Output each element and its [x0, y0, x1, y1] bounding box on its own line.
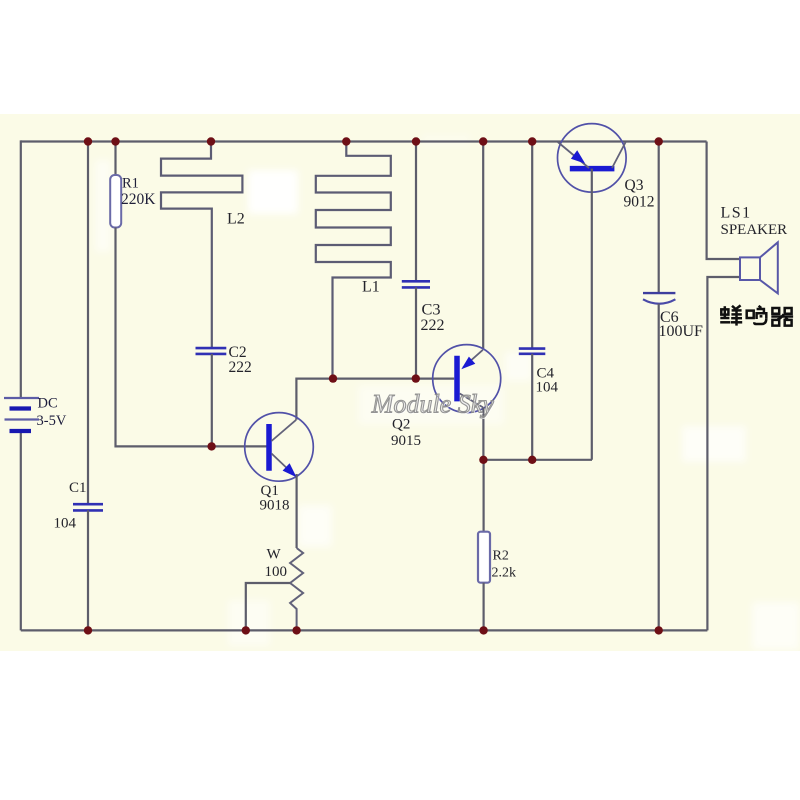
capacitor C1: [73, 504, 103, 510]
capacitor C2: [196, 348, 227, 354]
svg-text:L2: L2: [227, 211, 245, 228]
wire C4 branch upper: [531, 142, 533, 349]
junction bottom rail at R2: [479, 626, 487, 634]
svg-text:C1: C1: [69, 480, 87, 496]
junction top rail at L2: [207, 137, 215, 145]
transistor Q1: [245, 413, 314, 482]
wire C1 branch vertical: [87, 142, 89, 505]
inductor L1 comb: [316, 141, 391, 379]
speaker LS1 symbol: [740, 242, 778, 293]
junction bottom rail at W wiper: [242, 626, 250, 634]
wire R2 lower: [483, 583, 485, 631]
svg-text:C3: C3: [422, 300, 441, 319]
junction top rail at C6: [655, 137, 663, 145]
svg-text:R2: R2: [493, 549, 509, 564]
wire right vertical from top rail to speaker upper arm: [707, 142, 740, 260]
svg-text:DC: DC: [38, 396, 58, 412]
svg-text:9018: 9018: [260, 498, 290, 514]
wire Q1 collector up and right to Q2 base: [296, 379, 454, 420]
junction top rail at C3: [412, 137, 420, 145]
transistor Q2: [433, 345, 501, 413]
wire Q2 collector down: [482, 407, 484, 459]
wire R2 upper: [483, 460, 485, 532]
junction L1 bottom on base line: [329, 374, 337, 382]
svg-text:Q3: Q3: [625, 177, 644, 194]
label buzzer Chinese 蜂鸣器: [720, 305, 793, 325]
wire W wiper arm: [246, 583, 290, 630]
wire C2 lower: [211, 354, 213, 447]
wire speaker lower arm down to bottom rail: [707, 277, 740, 630]
junction top rail at C1: [84, 137, 92, 145]
wire C4 lower: [531, 354, 533, 460]
junction bottom rail at C1: [84, 626, 92, 634]
transistor Q3: [558, 124, 627, 193]
svg-text:R1: R1: [122, 176, 139, 192]
junction top rail at R1: [111, 137, 119, 145]
svg-text:222: 222: [421, 317, 445, 334]
junction C4 bottom: [528, 456, 536, 464]
svg-text:LS1: LS1: [721, 205, 752, 222]
schematic background panel: [0, 114, 800, 651]
capacitor C6 polarized: [643, 293, 675, 304]
wire R1 branch upper: [114, 142, 116, 176]
wire left rail lower segment: [20, 431, 22, 630]
junction bottom rail at W body: [292, 626, 300, 634]
wire C6 branch upper: [658, 142, 660, 294]
svg-text:222: 222: [229, 359, 252, 376]
svg-text:100: 100: [265, 564, 288, 580]
wire Q2 emitter from top rail: [482, 142, 484, 350]
svg-text:104: 104: [536, 380, 559, 396]
wire Q3 collector down to lower horizontal: [591, 169, 593, 460]
wire bottom ground rail: [21, 629, 708, 631]
svg-text:3-5V: 3-5V: [37, 413, 67, 429]
svg-text:220K: 220K: [121, 191, 156, 208]
junction bottom rail at C6: [655, 626, 663, 634]
svg-text:W: W: [267, 547, 282, 563]
junction C3 bottom on base line: [412, 374, 420, 382]
wire C3 lower to base line: [415, 287, 417, 378]
inductor L2 comb: [161, 141, 242, 349]
wire top supply rail: [21, 140, 707, 142]
junction top rail at L1: [342, 137, 350, 145]
junction top rail at Q2 emitter: [479, 137, 487, 145]
resistor R1 body: [110, 175, 121, 228]
svg-text:Module Sky: Module Sky: [371, 390, 494, 419]
wire C1 lower: [87, 510, 89, 630]
resistor R2 body: [478, 532, 490, 583]
svg-text:SPEAKER: SPEAKER: [721, 222, 788, 238]
svg-text:104: 104: [54, 516, 77, 532]
potentiometer W zigzag body: [290, 548, 303, 630]
wire left rail upper segment: [20, 140, 22, 398]
capacitor C4: [519, 349, 546, 354]
junction top rail at C4: [528, 137, 536, 145]
wire lower middle horizontal Q2-C4-Q3: [483, 459, 592, 461]
battery DC 3-5V: [4, 398, 39, 431]
watermark Module Sky: [371, 390, 495, 420]
svg-text:L1: L1: [362, 279, 380, 296]
svg-text:2.2k: 2.2k: [492, 565, 517, 580]
junction Q2 collector R2 top: [479, 456, 487, 464]
svg-text:9015: 9015: [391, 433, 421, 449]
svg-text:9012: 9012: [624, 193, 655, 210]
junction C2 bottom on Q1 base line: [207, 442, 215, 450]
wire R1 lower down and right to Q1 base: [116, 228, 268, 447]
wire C3 branch upper: [415, 142, 417, 282]
wire C6 lower: [658, 304, 660, 631]
capacitor C3: [402, 281, 430, 287]
wire Q1 emitter down to W: [296, 474, 298, 548]
svg-text:100UF: 100UF: [659, 323, 704, 340]
